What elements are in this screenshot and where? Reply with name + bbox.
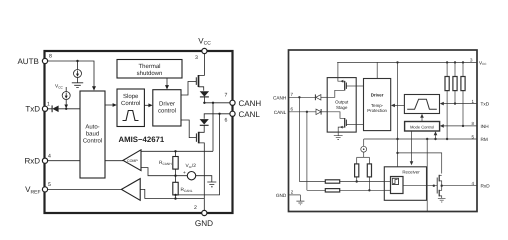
svg-text:shutdown: shutdown: [137, 70, 163, 77]
svg-text:Mode Control: Mode Control: [410, 124, 434, 129]
node rail junctions: [396, 61, 398, 63]
wire buffer input: [140, 189, 145, 198]
wire TxD: [47, 108, 80, 110]
resistor R2: [454, 62, 456, 76]
block Thermal shutdown: [117, 60, 182, 79]
svg-text:GND: GND: [276, 193, 287, 198]
wire comparator output to RxD: [105, 160, 123, 162]
diode D2: [200, 91, 209, 96]
diode D1 on TxD: [51, 105, 53, 112]
ground below I1: [77, 78, 79, 83]
svg-text:TxD: TxD: [481, 102, 490, 107]
node Rcanl bottom junction: [174, 194, 176, 196]
diode D3: [200, 119, 209, 124]
arrow RM into mode control: [435, 135, 437, 140]
wire I3 to divider: [363, 152, 365, 157]
block Mode Control: [405, 122, 440, 132]
transistor Q6 RxD low: [438, 190, 440, 197]
transistor Q5 RxD high: [436, 178, 438, 194]
block Driver Temp-Protection: [364, 79, 391, 131]
block Auto-baud Control: [80, 91, 105, 178]
svg-text:Output: Output: [335, 100, 349, 105]
arrow mode control to receiver: [411, 131, 413, 162]
wire CANH: [289, 96, 316, 98]
wire driver to output stage lower gate: [356, 123, 363, 125]
node divider mid junction: [174, 175, 176, 177]
pin TxD: [42, 106, 47, 111]
diode D4: [314, 94, 316, 100]
resistor Rcanl: [175, 176, 177, 183]
resistor R5: [368, 157, 370, 164]
transistor Q2: [198, 132, 200, 144]
wire VREF: [47, 188, 121, 190]
svg-text:RxD: RxD: [24, 157, 40, 166]
wire Vcc vertical to receiver: [397, 62, 399, 166]
wire slope to driver with arrow: [394, 104, 405, 106]
svg-text:AUTB: AUTB: [17, 57, 38, 66]
svg-text:Stage: Stage: [336, 105, 348, 110]
arrow into Auto-baud top: [92, 86, 96, 90]
transistor Q1: [198, 75, 200, 87]
node R4 bottom: [356, 180, 358, 182]
node CANH junction: [203, 102, 205, 104]
node CANH junction: [298, 96, 300, 98]
wire I2 to TxD with arrow: [65, 100, 67, 107]
current source I3: [363, 139, 365, 146]
svg-text:3: 3: [195, 55, 198, 61]
svg-text:Thermal: Thermal: [138, 63, 160, 70]
svg-text:Temp-: Temp-: [371, 103, 384, 108]
comparator COMP: [123, 150, 141, 171]
wire GND pin: [289, 194, 301, 196]
arrow Auto-baud to Slope Control: [105, 104, 115, 106]
svg-text:INH: INH: [481, 124, 489, 129]
voltage source Vcc/2: [187, 172, 195, 180]
pin CANH: [230, 100, 235, 105]
svg-text:CANH: CANH: [273, 95, 286, 100]
wire comparator top input to CANH sense: [141, 150, 213, 152]
ground below output stage: [337, 132, 339, 136]
svg-text:CANL: CANL: [239, 110, 261, 119]
svg-text:Auto-: Auto-: [85, 124, 99, 131]
arrow mode control to slope: [421, 117, 423, 122]
node INH pullup junction: [462, 125, 464, 127]
resistor R1: [446, 62, 448, 76]
svg-text:+: +: [183, 171, 186, 176]
pin CANL: [230, 111, 235, 116]
resistor Rcanh: [175, 151, 177, 156]
svg-text:Protection: Protection: [367, 108, 387, 113]
svg-text:Control: Control: [83, 138, 102, 145]
transistor Q4 in output stage: [344, 118, 346, 128]
resistor RTH horizontal: [299, 181, 325, 183]
receiver inner comparator box: [391, 177, 404, 194]
wire RxD: [47, 160, 80, 162]
svg-text:Receiver: Receiver: [402, 170, 420, 175]
svg-text:RM: RM: [481, 137, 488, 142]
left diagram text labels: [17, 37, 261, 229]
svg-text:baud: baud: [86, 131, 99, 138]
svg-text:CANL: CANL: [274, 110, 287, 115]
svg-text:4: 4: [48, 153, 51, 159]
resistor R4: [356, 157, 358, 164]
pin GND: [202, 210, 207, 215]
node CANH sense junction: [212, 102, 214, 104]
wire gnd bus: [145, 198, 205, 200]
buffer VREF: [121, 179, 140, 201]
svg-text:Slope: Slope: [123, 93, 139, 100]
wire Vcc rail down: [199, 51, 205, 75]
current source I1: [77, 61, 79, 70]
node CANL junction: [306, 111, 308, 113]
svg-text:5: 5: [48, 182, 51, 188]
wire INH: [443, 125, 477, 127]
svg-text:GND: GND: [195, 219, 213, 228]
receiver output wire: [403, 185, 437, 187]
wire to ground: [196, 176, 212, 182]
wire AUTB net: [47, 61, 94, 88]
wire to RxD driver supply: [398, 153, 442, 174]
current source I2 Vcc: [65, 87, 67, 92]
wire TxD: [443, 103, 478, 105]
wire RM: [364, 138, 477, 140]
wire comparator bottom input: [141, 168, 187, 176]
block slope shaper: [404, 95, 439, 114]
svg-text:VCC: VCC: [479, 60, 487, 66]
node RxD junctions: [433, 185, 435, 187]
block Output Stage: [327, 78, 356, 133]
wire driver to Q2 gate: [181, 120, 196, 138]
IC boundary right transceiver: [289, 50, 478, 212]
svg-text:6: 6: [225, 118, 228, 124]
block Receiver: [384, 167, 426, 201]
ground symbol GND pin: [299, 195, 301, 201]
svg-text:Driver: Driver: [159, 101, 175, 108]
svg-text:CANH: CANH: [239, 99, 262, 108]
wire output stage top to Vcc rail: [337, 62, 339, 77]
block Slope Control: [117, 89, 144, 127]
IC boundary U1 AMIS-42671: [45, 51, 233, 213]
svg-text:7: 7: [225, 93, 228, 99]
wire CANL sense bus: [176, 114, 220, 195]
arrow Thermal shutdown to Driver control: [166, 78, 168, 87]
transistor Q3 in output stage: [344, 81, 346, 91]
receiver input stubs: [384, 181, 390, 183]
wire driver to output stage upper gate: [356, 85, 363, 87]
svg-text:AMIS−42671: AMIS−42671: [119, 135, 165, 144]
wire VCC rail: [337, 61, 477, 63]
wire CANL: [204, 114, 230, 119]
wire CANL sense vertical: [306, 112, 308, 191]
svg-text:TxD: TxD: [25, 105, 40, 114]
block Driver control: [153, 90, 181, 126]
pin RxD: [42, 158, 47, 163]
svg-text:1: 1: [47, 101, 50, 107]
wire CANH: [204, 102, 230, 104]
diode D5: [316, 109, 321, 114]
svg-text:RxD: RxD: [481, 184, 491, 189]
pin VREF: [42, 187, 47, 192]
node junction: [396, 152, 398, 154]
trapezoid waveform: [407, 99, 437, 109]
node AUTB junction: [76, 60, 78, 62]
svg-text:control: control: [158, 108, 176, 115]
node R5 bottom: [368, 189, 370, 191]
wire CANL: [289, 111, 317, 113]
ground at Vcc/2: [207, 182, 216, 187]
node TxD junction: [65, 108, 67, 110]
resistor R3: [462, 62, 464, 76]
hysteresis glyph: [392, 178, 398, 184]
wire RM pulldown to bottom rail: [426, 139, 428, 212]
node TxD pullup junction: [454, 102, 456, 104]
node RM junctions: [446, 138, 448, 140]
svg-text:Control: Control: [121, 100, 140, 107]
arrow Slope Control to Driver control: [144, 104, 149, 106]
svg-text:Driver: Driver: [371, 93, 384, 98]
right diagram text labels: [273, 60, 490, 198]
node Rcanh top junction: [174, 150, 176, 152]
svg-text:8: 8: [49, 54, 52, 60]
resistor RTL horizontal: [307, 189, 325, 191]
pin AUTB: [42, 58, 47, 63]
svg-text:COMP: COMP: [127, 159, 138, 163]
pin VCC: [202, 48, 207, 53]
wire driver to Q1 gate: [181, 82, 196, 96]
wire driver top to Vcc rail: [376, 62, 378, 78]
ground below Q6: [438, 198, 446, 202]
wire CANH sense vertical: [298, 97, 300, 181]
node CANL sense junction: [218, 113, 220, 115]
slope waveform symbol: [123, 111, 139, 121]
wire RxD: [442, 185, 477, 187]
svg-text:2: 2: [194, 205, 197, 211]
